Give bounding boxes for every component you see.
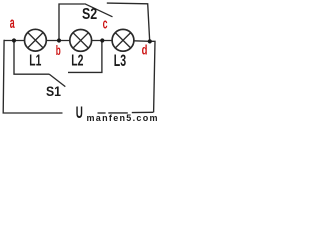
svg-text:manfen5.com: manfen5.com [87,113,158,122]
svg-text:d: d [142,42,148,57]
svg-text:S2: S2 [82,6,97,23]
svg-text:S1: S1 [46,83,61,99]
svg-text:L3: L3 [114,52,126,70]
svg-text:L2: L2 [71,52,83,69]
svg-text:a: a [10,15,15,32]
svg-text:L1: L1 [29,52,41,69]
svg-text:c: c [103,15,108,32]
svg-text:U: U [76,104,83,122]
svg-text:b: b [56,42,61,58]
